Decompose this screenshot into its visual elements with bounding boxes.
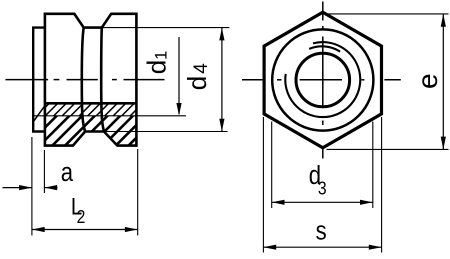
groove right face edge (chamfer curve) — [101, 28, 104, 132]
hexagon outline — [264, 12, 381, 148]
thread band hatching — [26, 101, 153, 118]
groove left face edge (chamfer curve) — [82, 28, 85, 132]
centerline vertical right view — [322, 2, 324, 159]
thread spiral outer arc — [285, 42, 360, 117]
dimension d4 — [182, 28, 225, 132]
collar strip hatch line — [34, 106, 44, 121]
section hatching lower — [12, 114, 160, 148]
dimension L2 — [32, 149, 138, 236]
dimension d1 — [141, 37, 181, 116]
groove top extension (d4) — [102, 27, 230, 29]
dimension d3 — [272, 122, 373, 209]
svg-text:s: s — [316, 217, 327, 246]
svg-text:3: 3 — [318, 177, 327, 199]
body outline (two hex sections with groove) — [45, 14, 136, 146]
dimension e — [327, 14, 449, 150]
thread spiral inner arc — [309, 46, 340, 51]
svg-text:e: e — [412, 73, 443, 89]
thread major line / d1 extension — [34, 115, 186, 117]
centerline horizontal right view — [242, 79, 401, 81]
chamfer circle — [272, 29, 373, 130]
collar outline — [33, 28, 45, 132]
dimension a — [3, 137, 74, 236]
centerline left view (axis) — [6, 79, 165, 81]
bore line (thread minor) — [45, 102, 136, 105]
groove bottom extension (d4) — [104, 131, 228, 133]
svg-text:2: 2 — [77, 206, 86, 228]
dimension s — [263, 117, 381, 253]
bore circle — [296, 53, 350, 107]
svg-text:a: a — [61, 158, 74, 187]
